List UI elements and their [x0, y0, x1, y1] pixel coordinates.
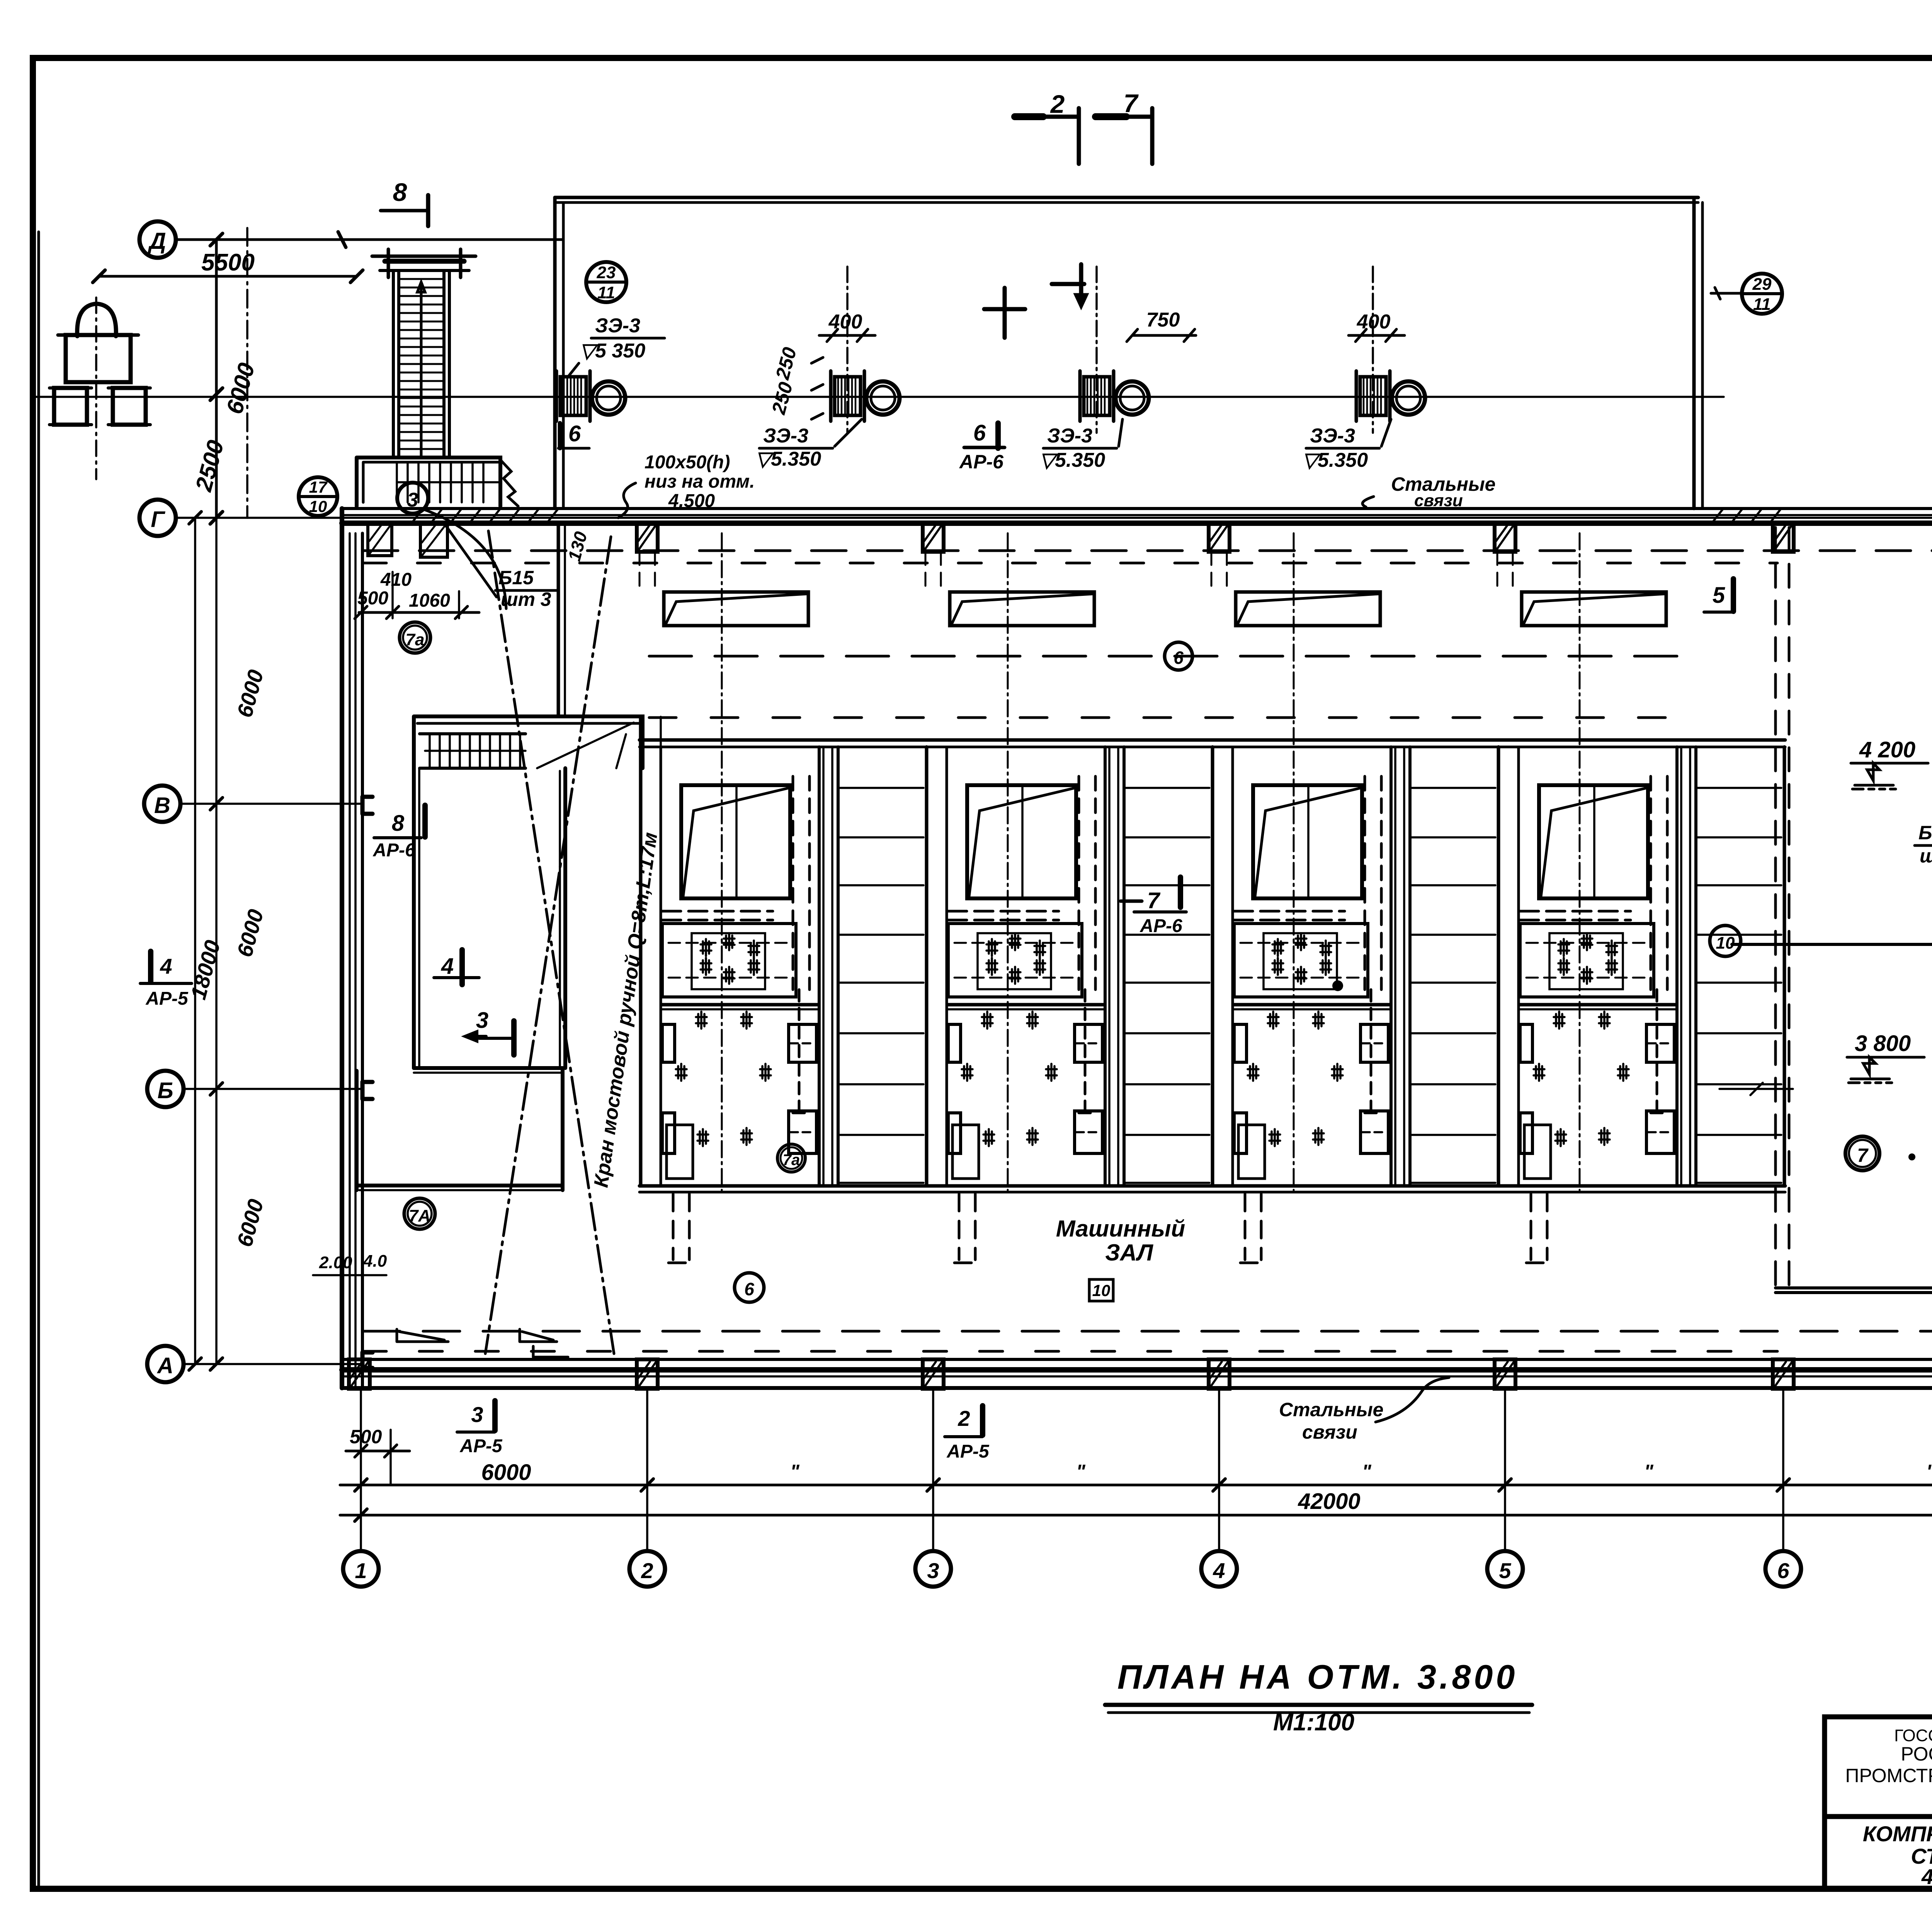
svg-text:шт 4: шт 4 — [1920, 845, 1932, 867]
annex lower room — [357, 1068, 563, 1190]
dashed lines above south wall — [363, 1330, 1932, 1333]
roof vent 3 duct — [1080, 371, 1149, 421]
svg-text:10: 10 — [1092, 1281, 1111, 1300]
axis Б segment near shaft — [1719, 1083, 1793, 1095]
title block project name — [1863, 1822, 1932, 1889]
svg-text:750: 750 — [1146, 309, 1180, 331]
chimney base box — [357, 458, 500, 506]
column axis 1 / А — [349, 1359, 370, 1389]
axis А circle left — [147, 1346, 184, 1382]
axis Б line — [184, 1088, 1932, 1090]
column axis 3 / А — [923, 1359, 944, 1389]
crane travel diagonal A — [488, 531, 614, 1354]
roof vent 3 pipe — [1116, 381, 1149, 415]
left dim chain 6000 line — [215, 518, 218, 1364]
vent 1 label ЗЭ-3 — [580, 315, 645, 362]
north wall hatching — [412, 509, 558, 523]
axis В wall bracket left — [362, 797, 372, 814]
А wall columns at axes 1-8 — [349, 1359, 1932, 1389]
svg-text:7: 7 — [1124, 89, 1139, 117]
svg-text:7: 7 — [1857, 1145, 1869, 1166]
detail circle 29/11 — [1742, 274, 1782, 314]
roof area right edge — [1692, 197, 1696, 509]
title block — [1825, 1717, 1932, 1889]
axis circle 6 — [1765, 1551, 1801, 1587]
roof vent 1 pipe — [592, 381, 625, 415]
vent 4 label ЗЭ-3 — [1302, 425, 1368, 471]
svg-text:Б18: Б18 — [1918, 822, 1932, 844]
hall boxed mark 10 — [1089, 1279, 1113, 1301]
svg-text:Б: Б — [157, 1078, 173, 1103]
svg-text:▽5.350: ▽5.350 — [1039, 449, 1105, 471]
column axis 5 / Г — [1495, 523, 1515, 552]
note 100x50(h) низ на отм 4.500 — [645, 452, 755, 511]
svg-text:Стальные: Стальные — [1279, 1399, 1383, 1420]
column axis 6 / А — [1773, 1359, 1794, 1389]
registration cross 2 — [1052, 264, 1086, 305]
axis А wall bracket left — [362, 1352, 372, 1368]
svg-text:410: 410 — [380, 570, 412, 590]
svg-text:10: 10 — [309, 497, 327, 515]
label Б18 шт 4 — [1918, 822, 1932, 867]
column axis 2 / Г — [637, 523, 658, 552]
machine unit 4 (compressor bay 5-6) — [1498, 747, 1781, 1263]
svg-text:М1:100: М1:100 — [1273, 1709, 1354, 1736]
north wall (axis Г) — [342, 507, 1932, 510]
svg-text:РОСТОВСКИЙ: РОСТОВСКИЙ — [1901, 1743, 1932, 1765]
svg-text:8: 8 — [393, 178, 407, 206]
title block org text — [1845, 1725, 1932, 1808]
axis Б wall bracket left — [362, 1082, 372, 1099]
detail circle 23/11 — [586, 262, 626, 302]
svg-text:Д: Д — [147, 228, 166, 254]
chimney ladder rungs — [399, 279, 444, 449]
svg-text:4К-500А: 4К-500А — [1921, 1864, 1932, 1889]
svg-text:7а: 7а — [406, 630, 425, 649]
chimney body — [393, 270, 449, 458]
svg-text:": " — [790, 1461, 800, 1482]
annex room walls — [414, 768, 565, 1068]
svg-text:100х50(h): 100х50(h) — [645, 452, 730, 473]
machine unit 3 dot — [1332, 980, 1343, 991]
svg-text:▽5 350: ▽5 350 — [580, 340, 645, 362]
machine unit 2 (compressor bay 3-4) — [927, 747, 1209, 1263]
label стальные связи (top) — [1391, 473, 1495, 510]
svg-text:23: 23 — [597, 263, 616, 282]
roof window sill 4 — [1522, 592, 1666, 626]
svg-text:400: 400 — [1357, 311, 1391, 333]
vent 3 center line — [1095, 267, 1098, 433]
svg-text:3: 3 — [471, 1402, 483, 1427]
svg-text:": " — [1362, 1461, 1372, 1482]
svg-text:4: 4 — [1213, 1558, 1225, 1583]
roof area left edge — [553, 197, 557, 509]
dims 410 500 1060 — [357, 570, 450, 611]
svg-text:А: А — [156, 1353, 173, 1378]
left vertical dimension line — [215, 240, 218, 518]
tick on axis Д — [338, 232, 346, 247]
dimension 5500 — [99, 275, 357, 278]
roof window sill 2 — [950, 592, 1094, 626]
registration cross 1 — [984, 288, 1025, 338]
annex stair arrow — [537, 723, 634, 768]
svg-text:4 200: 4 200 — [1859, 737, 1915, 762]
svg-text:КОМПРЕССОРНАЯ: КОМПРЕССОРНАЯ — [1863, 1822, 1932, 1846]
column axis 2 / А — [637, 1359, 658, 1389]
repeat marks between axes — [790, 1461, 1932, 1482]
svg-text:6000: 6000 — [481, 1460, 531, 1485]
svg-text:4: 4 — [160, 954, 172, 978]
corner pilaster 1 at Г wall — [368, 524, 392, 556]
svg-text:АР-6: АР-6 — [372, 840, 415, 861]
svg-text:42000: 42000 — [1298, 1489, 1360, 1514]
column axis 3 / Г — [923, 523, 944, 552]
south wall (axis А) — [342, 1358, 1932, 1361]
roof window sill 1 — [664, 592, 808, 626]
svg-text:6: 6 — [1173, 648, 1184, 668]
svg-text:2.00: 2.00 — [319, 1253, 352, 1272]
corner pilaster 2 at Г wall — [420, 524, 447, 557]
roof area top edge — [555, 196, 1698, 199]
hall circle 6 — [735, 1273, 764, 1302]
label стальные связи (bottom) — [1279, 1399, 1383, 1443]
machine unit 3 (compressor bay 4-5) — [1213, 747, 1495, 1263]
svg-text:6: 6 — [744, 1279, 754, 1299]
axis В circle left — [144, 786, 180, 822]
column axis 6 / Г — [1773, 523, 1794, 552]
svg-text:29: 29 — [1752, 275, 1772, 294]
window band dashed line 1 — [649, 655, 1700, 658]
door detail circle 3 with swing arc — [397, 483, 428, 514]
svg-text:ЗЭ-3: ЗЭ-3 — [1310, 425, 1355, 447]
column dashes below Г columns — [639, 552, 1513, 590]
svg-text:3: 3 — [927, 1558, 939, 1583]
column axis 4 / Г — [1209, 523, 1230, 552]
dash-dot vertical at dim — [246, 228, 248, 518]
dashed lines below north wall — [363, 549, 1932, 552]
svg-text:3: 3 — [407, 489, 418, 511]
svg-text:АР-6: АР-6 — [959, 451, 1004, 473]
svg-text:Б15: Б15 — [498, 567, 534, 589]
svg-text:6: 6 — [973, 420, 986, 446]
column axis 4 / А — [1209, 1359, 1230, 1389]
svg-text:6: 6 — [568, 421, 581, 446]
svg-text:17: 17 — [309, 478, 328, 496]
svg-text:ПЛАН НА ОТМ. 3.800: ПЛАН НА ОТМ. 3.800 — [1117, 1658, 1518, 1696]
pedestal foot right — [113, 388, 146, 425]
detail circle 17/10 — [299, 477, 337, 516]
svg-text:4: 4 — [441, 954, 454, 979]
axis Г line — [176, 517, 1932, 519]
axis circle 3 — [915, 1551, 951, 1587]
svg-text:11: 11 — [597, 283, 615, 302]
svg-text:3 800: 3 800 — [1855, 1031, 1911, 1056]
axis circle 2 — [629, 1551, 665, 1587]
pedestal body — [66, 335, 131, 382]
machine hall floor edge — [639, 1184, 1785, 1188]
svg-text:10: 10 — [1716, 934, 1735, 953]
break line right of base — [500, 460, 518, 506]
machine bay left wall upper extension — [639, 717, 643, 747]
machine unit 1 tag 7а — [777, 1144, 805, 1172]
west wall — [340, 509, 344, 1388]
svg-text:8: 8 — [392, 811, 405, 836]
title block left cell divider — [1825, 1814, 1932, 1819]
axis circle 4 — [1201, 1551, 1237, 1587]
svg-text:11: 11 — [1753, 295, 1771, 314]
roof vent 2 duct — [831, 371, 900, 421]
title block outline — [1825, 1717, 1932, 1889]
chimney cap — [385, 255, 464, 258]
svg-text:": " — [1076, 1461, 1086, 1482]
svg-text:связи: связи — [1302, 1421, 1357, 1443]
svg-text:ЗАЛ: ЗАЛ — [1105, 1240, 1154, 1266]
shaft room outline — [1732, 943, 1932, 946]
svg-text:ЗЭ-3: ЗЭ-3 — [595, 315, 640, 337]
roof vent 4 duct — [1356, 371, 1425, 421]
machine unit 1 (compressor bay 2-3) — [641, 747, 923, 1263]
crane bay edge above annex stair — [557, 526, 560, 716]
svg-text:": " — [1926, 1461, 1932, 1482]
svg-text:В: В — [154, 793, 170, 818]
svg-text:2: 2 — [1050, 90, 1065, 118]
svg-text:ГОССТРОЙ СССР: ГОССТРОЙ СССР — [1894, 1725, 1932, 1745]
annex room step — [414, 1066, 563, 1070]
svg-text:5: 5 — [1713, 583, 1725, 608]
left dim chain 18000 line — [194, 518, 196, 1364]
svg-text:6: 6 — [1777, 1558, 1789, 1583]
roof vent 1 duct — [556, 371, 625, 421]
chimney center line with arrow — [417, 282, 425, 456]
axis В line — [181, 803, 1932, 805]
vent 3 label ЗЭ-3 — [1039, 425, 1105, 471]
window sill marks south-west bay — [397, 1329, 448, 1342]
svg-text:АР-5: АР-5 — [145, 988, 189, 1009]
circle 10 on axis 6 — [1710, 925, 1741, 956]
small dims 2.00 / 4.0 near west wall — [319, 1252, 387, 1272]
svg-text:▽5.350: ▽5.350 — [755, 448, 821, 470]
pedestal center line — [95, 298, 97, 479]
svg-text:7а: 7а — [783, 1152, 800, 1169]
svg-text:5: 5 — [1499, 1558, 1511, 1583]
roof vent 4 pipe — [1392, 381, 1425, 415]
base stair treads — [397, 462, 483, 502]
vent 2 label ЗЭ-3 — [755, 425, 821, 470]
left inner margin line — [37, 232, 40, 1889]
window band dashed line 2 — [649, 716, 1700, 719]
axis Д circle — [139, 221, 176, 258]
long horizontal line through pedestal (ground line) — [34, 396, 1724, 398]
svg-text:500: 500 — [357, 588, 388, 609]
section mark 7/АР-6 (in hall) — [1121, 900, 1142, 903]
svg-text:Г: Г — [151, 507, 165, 532]
axis А line — [184, 1363, 1932, 1365]
svg-text:низ на отм.: низ на отм. — [645, 471, 755, 492]
svg-text:▽5.350: ▽5.350 — [1302, 449, 1368, 471]
leader from Б15 label to wall — [446, 526, 497, 597]
svg-text:400: 400 — [828, 311, 862, 333]
roof window sill 3 — [1236, 592, 1380, 626]
axis Д line — [176, 238, 562, 241]
circle 7а (upper left) — [400, 622, 430, 653]
circle 7А (lower left) — [404, 1198, 435, 1229]
machine bays closing wall right — [1783, 747, 1786, 1186]
svg-text:ПРОМСТРОЙНИИПРОЕКТ: ПРОМСТРОЙНИИПРОЕКТ — [1845, 1764, 1932, 1786]
column axis 5 / А — [1495, 1359, 1515, 1389]
label Машинный ЗАЛ — [1056, 1216, 1185, 1266]
svg-text:АР-5: АР-5 — [459, 1436, 503, 1456]
axis 6 partition (dashed wall) — [1776, 527, 1789, 1293]
vent 4 center line — [1372, 267, 1374, 433]
crane travel diagonal B — [485, 537, 611, 1354]
svg-text:3: 3 — [476, 1008, 488, 1033]
annex stair treads — [420, 734, 526, 768]
bottom axis extension lines — [361, 1391, 1932, 1551]
svg-text:ЗЭ-3: ЗЭ-3 — [1047, 425, 1092, 447]
svg-text:7: 7 — [1147, 888, 1161, 913]
svg-text:1060: 1060 — [409, 590, 450, 611]
label Б15 шт 3 (left) — [498, 567, 551, 610]
svg-text:1: 1 — [355, 1558, 367, 1583]
annex stair top landing — [414, 716, 643, 768]
svg-text:Машинный: Машинный — [1056, 1216, 1185, 1242]
vent 2 center line — [846, 267, 849, 433]
Г wall columns at axes 2-7 — [637, 523, 1932, 552]
svg-text:2: 2 — [957, 1406, 970, 1431]
axis circle 1 — [343, 1551, 379, 1587]
roof vent 2 pipe — [866, 381, 900, 415]
axis Г circle left — [139, 500, 176, 536]
svg-text:АР-6: АР-6 — [1139, 916, 1182, 936]
svg-text:": " — [1644, 1461, 1654, 1482]
axis Б circle left — [147, 1071, 184, 1107]
window band circle 6 — [1165, 642, 1192, 670]
pedestal foot left — [54, 388, 87, 425]
machine hall inner north wall — [639, 738, 1785, 742]
bottom dim row 42000 — [340, 1514, 1932, 1517]
svg-text:АР-5: АР-5 — [946, 1441, 990, 1462]
bay center lines upper extension — [722, 533, 1580, 748]
svg-text:4.0: 4.0 — [363, 1252, 387, 1271]
svg-text:7А: 7А — [409, 1206, 430, 1225]
axis circle 5 — [1487, 1551, 1523, 1587]
equipment pedestal (outdoor lamp) bulb — [77, 304, 116, 336]
svg-text:ЗЭ-3: ЗЭ-3 — [763, 425, 808, 447]
circle 7 (shaft) — [1845, 1136, 1879, 1170]
svg-text:2: 2 — [641, 1558, 653, 1583]
bottom dim row 6000 — [340, 1484, 1932, 1487]
